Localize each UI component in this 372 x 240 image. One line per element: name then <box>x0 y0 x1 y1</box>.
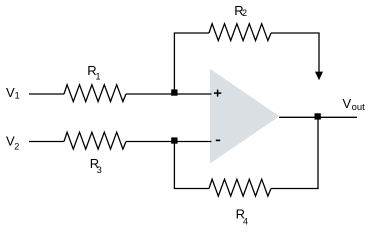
svg-text:3: 3 <box>97 165 102 175</box>
svg-text:out: out <box>352 102 366 113</box>
op-amp - input marker <box>216 139 220 141</box>
op-amp + input marker <box>214 90 221 97</box>
svg-text:V: V <box>343 96 352 111</box>
svg-text:2: 2 <box>242 8 247 18</box>
svg-text:2: 2 <box>14 142 19 152</box>
wire V2 lead <box>29 141 64 143</box>
wire down to arrow <box>318 33 320 73</box>
op-amp U1 <box>210 69 279 164</box>
wire R3 to - input <box>126 141 211 143</box>
node junction at - input branch <box>171 137 177 143</box>
arrowhead pointing down <box>315 72 323 81</box>
wire R1 to + input <box>126 93 211 95</box>
wire up from R4 to output <box>317 117 319 189</box>
wire R4 right lead <box>271 188 319 190</box>
svg-text:1: 1 <box>96 72 101 82</box>
node junction at + input branch <box>171 89 177 95</box>
resistor R2 <box>209 24 271 41</box>
svg-text:4: 4 <box>243 216 248 226</box>
wire down from - node <box>173 142 175 189</box>
wire R2 right lead <box>271 32 320 34</box>
resistor R4 <box>209 179 271 196</box>
wire R4 left lead <box>174 188 209 190</box>
node junction at output <box>315 113 321 119</box>
resistor R1 <box>64 85 126 102</box>
wire up from + node <box>173 33 175 94</box>
svg-text:1: 1 <box>15 91 20 101</box>
resistor R3 <box>64 132 126 149</box>
wire R2 left lead <box>174 32 209 34</box>
wire op-amp output <box>279 116 357 118</box>
wire V1 lead <box>29 93 64 95</box>
